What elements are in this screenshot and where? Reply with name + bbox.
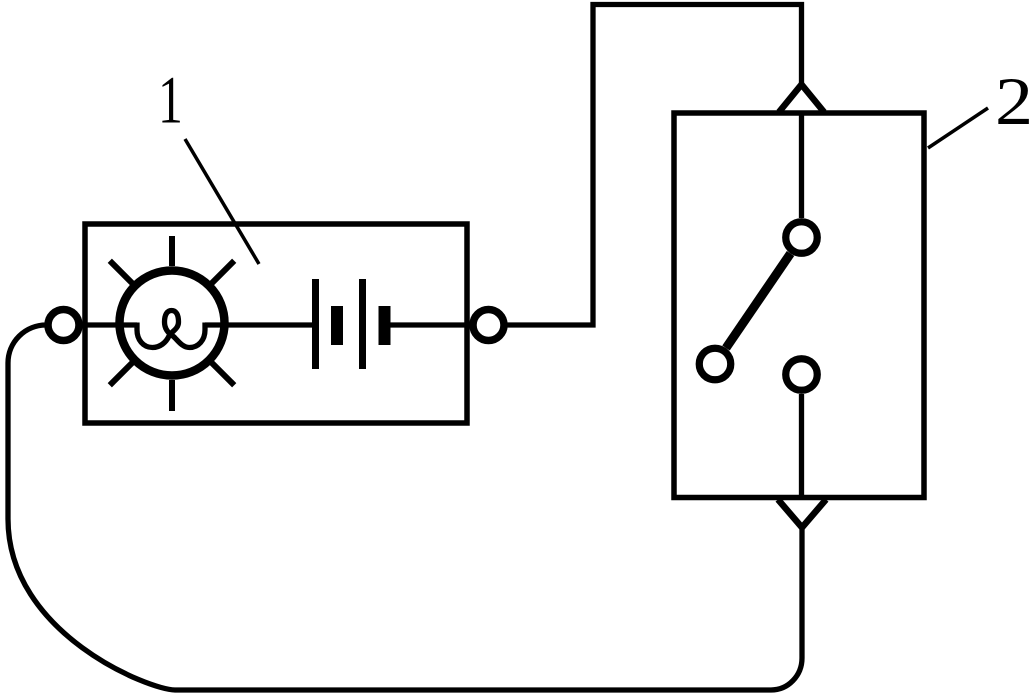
- wire: big return loop from left terminal down, along bottom, up to switch: [8, 325, 802, 690]
- terminal left (binding post): [48, 310, 79, 341]
- wire: top run from right terminal up and over to switch box: [488, 5, 802, 326]
- wire: inside box 2 from top edge to switch pivot: [799, 113, 804, 218]
- lamp ray NW: [110, 261, 133, 284]
- lamp ray SE: [212, 363, 235, 386]
- lamp ray SW: [110, 363, 133, 386]
- wire hop chevron at box 2 bottom edge: [778, 500, 826, 528]
- lamp ray top: [169, 236, 175, 266]
- wire: horizontal from left terminal into lamp: [50, 322, 137, 327]
- switch open-end contact circle: [699, 348, 731, 380]
- leader line for label 1: [185, 139, 259, 264]
- switch lever blade: [726, 254, 791, 349]
- lamp ray bottom: [169, 380, 175, 411]
- battery cell 1 long plate: [312, 279, 319, 369]
- switch pivot contact circle: [786, 222, 818, 254]
- svg-text:2: 2: [995, 64, 1029, 139]
- wire: inside box 2 from lower contact to bottom edge: [799, 394, 804, 497]
- battery cell 2 long plate: [359, 279, 366, 369]
- terminal right (binding post): [473, 310, 504, 341]
- leader line for label 2: [928, 108, 988, 148]
- lamp L1 circle: [120, 271, 225, 376]
- switch lower contact circle: [786, 359, 818, 391]
- battery cell 2 short plate: [379, 306, 391, 345]
- battery cell 1 short plate: [331, 306, 343, 345]
- wire: lamp to battery: [205, 322, 315, 327]
- box 1 (battery + lamp unit): [85, 224, 467, 423]
- svg-text:1: 1: [158, 62, 183, 137]
- wire hop chevron at box 2 top edge: [779, 85, 824, 113]
- lamp filament (continuous coil stroke): [137, 311, 205, 348]
- box 2 (switch unit): [674, 113, 924, 498]
- wire: battery to right terminal: [390, 322, 488, 327]
- lamp ray NE: [212, 261, 235, 284]
